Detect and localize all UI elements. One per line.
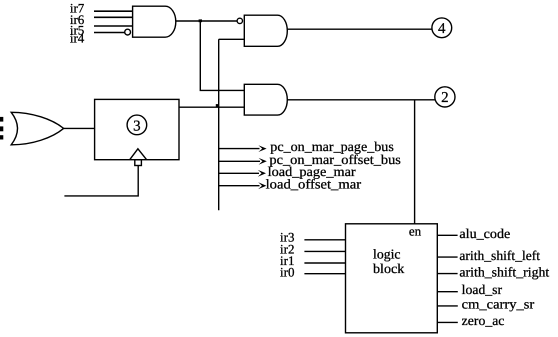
wire load_sr output xyxy=(437,291,458,293)
svg-text:alu_code: alu_code xyxy=(459,226,510,241)
wire arith_shift_left output xyxy=(437,256,457,258)
wire U3 output to G3 bottom input xyxy=(179,106,244,108)
wire G2 bottom input xyxy=(219,38,245,40)
or-gate clipped input stub 3 xyxy=(0,135,3,139)
wire ir2 input xyxy=(304,250,345,252)
wire cm_carry_sr output xyxy=(437,305,458,307)
wire vertical bus from G2 bottom input down past arrows xyxy=(218,39,220,210)
svg-text:logic: logic xyxy=(373,247,401,262)
logic block U1 (box) xyxy=(346,224,438,333)
wire ir4 input xyxy=(94,32,125,34)
junction at vertical bus crossing xyxy=(216,104,219,107)
and-gate G2 (2-input AND with inverted top input) xyxy=(244,15,287,46)
svg-text:arith_shift_right: arith_shift_right xyxy=(459,264,549,279)
svg-text:ir4: ir4 xyxy=(70,31,85,46)
wire ir3 input xyxy=(304,239,345,241)
and-gate G3 (2-input AND) xyxy=(244,84,287,115)
wire arrow pc_on_mar_offset_bus xyxy=(219,160,260,162)
svg-text:load_offset_mar: load_offset_mar xyxy=(266,176,362,191)
svg-text:arith_shift_left: arith_shift_left xyxy=(459,248,540,263)
svg-text:2: 2 xyxy=(441,90,449,106)
wire ir5 input xyxy=(94,25,133,27)
svg-text:cm_carry_sr: cm_carry_sr xyxy=(462,297,535,312)
junction at G1 output branch xyxy=(199,19,202,22)
register block U3 (box) xyxy=(95,99,179,159)
wire ir6 input xyxy=(94,16,133,18)
inverter bubble on ir4 input of gate G1 xyxy=(125,29,131,35)
wire zero_ac output xyxy=(437,321,458,323)
wire ir0 input xyxy=(304,273,345,275)
wire arrow pc_on_mar_page_bus xyxy=(219,148,260,150)
wire alu_code output xyxy=(437,234,457,236)
svg-text:load_sr: load_sr xyxy=(462,282,503,297)
wire junction down to G3 top input xyxy=(200,21,244,90)
clock triangle on U3 bottom edge xyxy=(130,149,147,160)
node 3 circle xyxy=(127,115,147,135)
wire G1 output to G2 bubble xyxy=(176,20,237,22)
clock bubble square below U3 xyxy=(135,160,142,166)
wire arith_shift_right output xyxy=(437,273,457,275)
or-gate clipped input stub 1 xyxy=(0,117,3,122)
wire ir7 input xyxy=(94,10,133,12)
wire clock input xyxy=(64,166,138,196)
wire arrow load_page_mar xyxy=(219,172,259,174)
svg-text:4: 4 xyxy=(438,21,446,37)
wire G2 output to node 4 xyxy=(287,28,432,30)
svg-text:ir0: ir0 xyxy=(280,264,294,279)
svg-text:zero_ac: zero_ac xyxy=(462,313,505,328)
inverter bubble on top input of gate G2 xyxy=(237,18,242,23)
or-gate U2 (inputs clipped at left edge) xyxy=(11,112,63,145)
wire T-junction down to logic block en xyxy=(414,100,416,224)
svg-text:block: block xyxy=(373,261,405,276)
wire OR output to register block xyxy=(64,127,95,129)
wire arrow load_offset_mar xyxy=(219,185,260,187)
node 4 circle xyxy=(432,18,452,38)
svg-text:3: 3 xyxy=(133,118,141,134)
wire ir1 input xyxy=(304,262,345,264)
and-gate G1 (4-input AND, ir7 ir6 ir5 /ir4) xyxy=(133,6,176,37)
svg-text:en: en xyxy=(409,223,422,238)
or-gate clipped input stub 2 xyxy=(0,126,3,131)
wire G3 output to node 2 xyxy=(287,99,435,101)
node 2 circle xyxy=(435,87,455,107)
